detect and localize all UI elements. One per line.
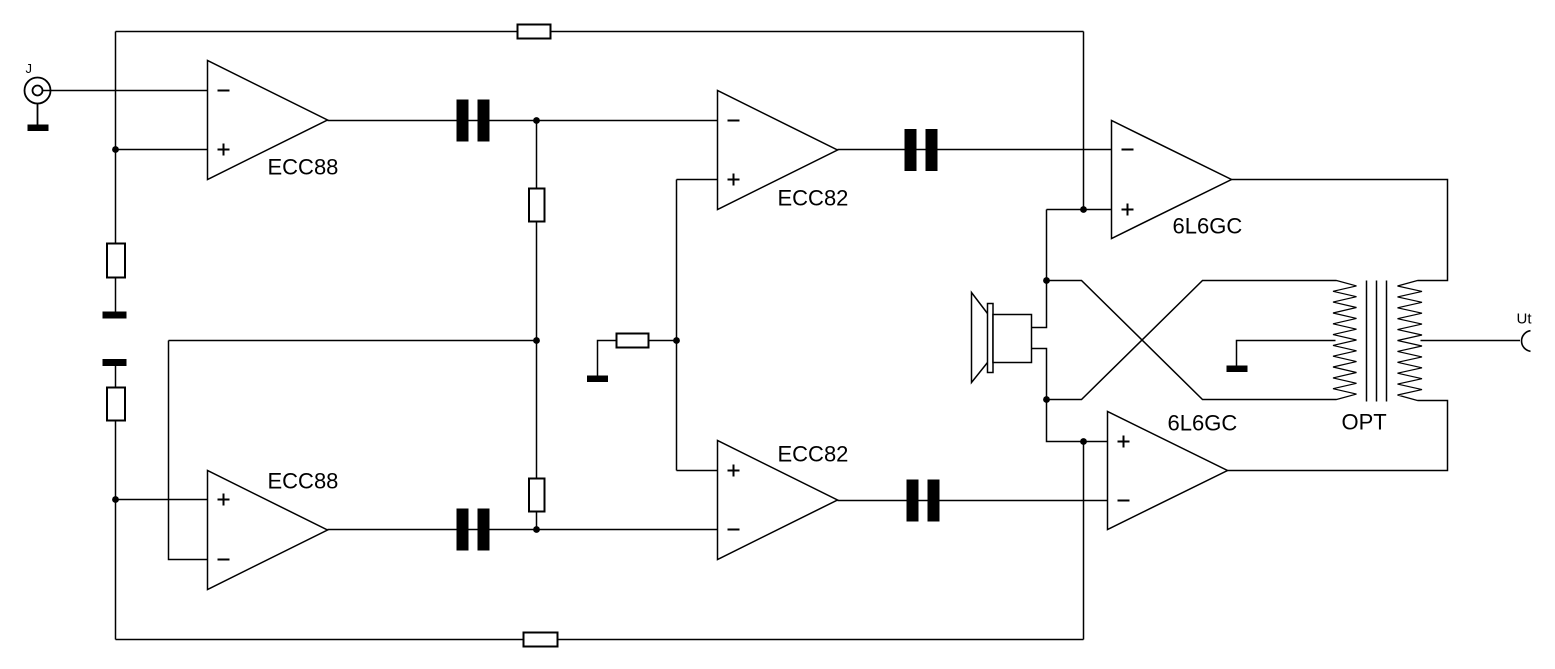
capacitor C4	[907, 480, 940, 522]
op-amp U4 (ECC82 lower)	[718, 441, 838, 560]
svg-text:6L6GC: 6L6GC	[1173, 214, 1243, 239]
wire right feedback vertical x=1083	[1083, 32, 1085, 210]
U4 plus pin symbol	[728, 465, 740, 477]
wire U5 output to OPT secondary top	[1232, 180, 1448, 281]
wire U5 plus input	[1047, 209, 1112, 211]
wire feedback left vertical	[169, 341, 208, 560]
node K junction dot	[1080, 438, 1087, 445]
op-amp U6 (6L6GC lower)	[1108, 412, 1228, 530]
resistor R4 (lower grid leak)	[529, 479, 545, 512]
U4 minus pin symbol	[728, 529, 740, 531]
node B junction dot	[533, 117, 540, 124]
U1 minus pin symbol	[218, 90, 230, 92]
ground (flipped, above R5)	[103, 359, 127, 366]
resistor R3 (upper grid leak)	[529, 189, 545, 222]
capacitor C1	[457, 100, 490, 142]
wire U4 output to U6	[838, 500, 1108, 502]
wire gnd stub to R5	[115, 366, 117, 388]
U3 minus pin symbol	[728, 120, 740, 122]
U3 plus pin symbol	[728, 174, 740, 186]
op-amp U3 (ECC82 upper)	[718, 91, 838, 210]
OPT core lines	[1366, 281, 1368, 402]
op-amp U1 (ECC88 upper)	[208, 61, 328, 180]
svg-text:OPT: OPT	[1342, 410, 1387, 435]
wire bottom rail	[116, 639, 1084, 641]
wire U6 output to OPT secondary bottom	[1228, 401, 1448, 471]
wire node I down to U6 plus input	[1047, 400, 1108, 442]
wire phase splitter vertical x=676	[676, 180, 678, 471]
wire middle rail y=340	[169, 340, 537, 342]
ground (below R2)	[103, 312, 127, 319]
wire node D to U2 non-inverting input	[116, 499, 208, 501]
node G junction dot	[1080, 206, 1087, 213]
U5 plus pin symbol	[1122, 204, 1134, 216]
node E junction dot	[533, 526, 540, 533]
wire secondary tap to output Ut	[1421, 340, 1521, 342]
node I junction dot	[1043, 396, 1050, 403]
U2 minus pin symbol	[218, 559, 230, 561]
wire top feedback rail	[116, 31, 1084, 33]
connector Ut (output terminal)	[1522, 331, 1531, 352]
wire X cross lower-left to upper-right	[1047, 281, 1337, 400]
wire speaker top terminal	[1032, 281, 1047, 328]
speaker LS1	[972, 293, 1032, 383]
wire U3 output to U5	[838, 149, 1112, 151]
svg-text:ECC82: ECC82	[778, 186, 849, 211]
svg-text:J: J	[26, 61, 33, 76]
wire left rail vertical	[115, 32, 117, 312]
op-amp U5 (6L6GC upper)	[1112, 121, 1232, 239]
wire primary center tap to ground	[1237, 341, 1336, 366]
inductor OPT primary coil	[1333, 281, 1357, 400]
resistor R5 (lower divider)	[107, 388, 125, 421]
node D junction dot	[112, 496, 119, 503]
capacitor C3	[457, 509, 490, 551]
wire U4 plus input	[677, 470, 718, 472]
svg-text:Ut: Ut	[1517, 311, 1533, 328]
wire U3 plus input	[677, 179, 718, 181]
wire right lower vertical x=1083	[1083, 442, 1085, 640]
wire node A to U1 non-inverting input	[116, 149, 208, 151]
connector J (input jack)	[25, 78, 51, 125]
U6 plus pin symbol	[1118, 436, 1130, 448]
wire jack to U1 inverting input	[43, 90, 208, 92]
wire middle vertical x=536	[536, 121, 538, 530]
ground (below jack J)	[28, 125, 49, 132]
ground (below R6)	[587, 376, 608, 383]
svg-text:6L6GC: 6L6GC	[1168, 411, 1238, 436]
resistor R6 (bias to ground)	[649, 340, 677, 342]
node F junction dot	[673, 337, 680, 344]
wire X cross upper-left to lower-right	[1047, 281, 1337, 400]
U2 plus pin symbol	[218, 494, 230, 506]
svg-text:ECC88: ECC88	[268, 469, 339, 494]
node C junction dot	[533, 337, 540, 344]
wire U2 output to U4	[328, 529, 718, 531]
resistor R7 (bottom feedback)	[524, 633, 558, 647]
wire speaker bottom terminal	[1032, 349, 1047, 400]
svg-text:ECC88: ECC88	[268, 155, 339, 180]
capacitor C2	[905, 129, 938, 171]
node A junction dot	[112, 146, 119, 153]
U5 minus pin symbol	[1122, 149, 1134, 151]
U6 minus pin symbol	[1118, 500, 1130, 502]
wire R5 down to bottom rail	[115, 421, 117, 640]
resistor R2 (input divider)	[107, 244, 125, 278]
op-amp U2 (ECC88 lower)	[208, 471, 328, 590]
node H junction dot	[1043, 277, 1050, 284]
svg-text:ECC82: ECC82	[778, 442, 849, 467]
wire U1 output to U3	[328, 120, 718, 122]
inductor OPT secondary coil	[1398, 281, 1423, 401]
resistor R1 (top feedback)	[518, 25, 551, 39]
U1 plus pin symbol	[218, 144, 230, 156]
ground (OPT center tap)	[1227, 366, 1248, 373]
wire corner down to node H	[1046, 210, 1048, 281]
